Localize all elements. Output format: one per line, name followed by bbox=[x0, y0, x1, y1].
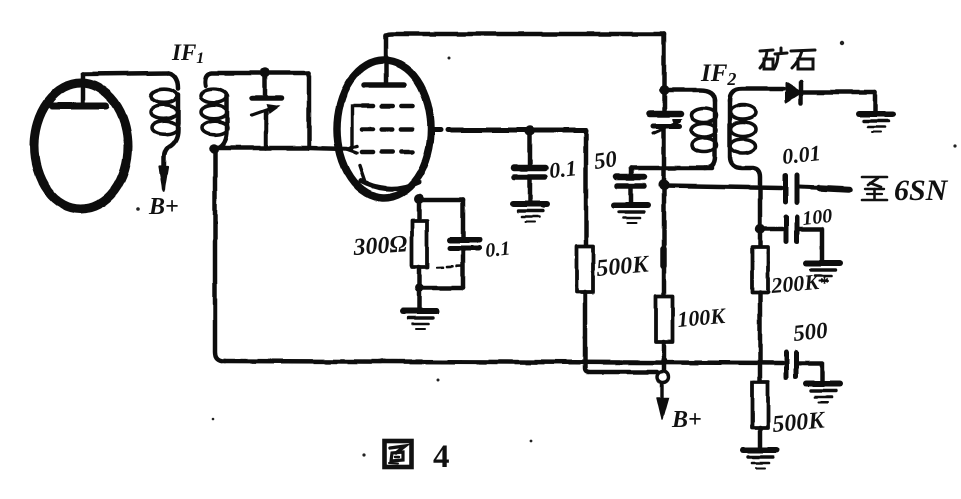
svg-text:500K: 500K bbox=[771, 407, 827, 438]
svg-text:0.01: 0.01 bbox=[781, 140, 822, 169]
svg-text:100: 100 bbox=[801, 205, 833, 230]
svg-text:6SN: 6SN bbox=[894, 174, 949, 207]
svg-text:IF2: IF2 bbox=[700, 60, 736, 89]
svg-text:500: 500 bbox=[792, 317, 829, 346]
svg-text:100K: 100K bbox=[676, 303, 727, 332]
svg-text:B+: B+ bbox=[148, 194, 179, 220]
svg-text:B+: B+ bbox=[671, 407, 702, 433]
svg-text:IF1: IF1 bbox=[171, 40, 204, 67]
svg-text:200K: 200K bbox=[769, 269, 821, 298]
svg-text:0.1: 0.1 bbox=[548, 155, 578, 183]
svg-text:300Ω: 300Ω bbox=[352, 231, 409, 261]
svg-text:*: * bbox=[820, 273, 829, 293]
svg-text:0.1: 0.1 bbox=[484, 237, 511, 261]
svg-text:500K: 500K bbox=[595, 251, 651, 282]
svg-text:4: 4 bbox=[433, 439, 450, 475]
svg-text:50: 50 bbox=[592, 146, 619, 174]
